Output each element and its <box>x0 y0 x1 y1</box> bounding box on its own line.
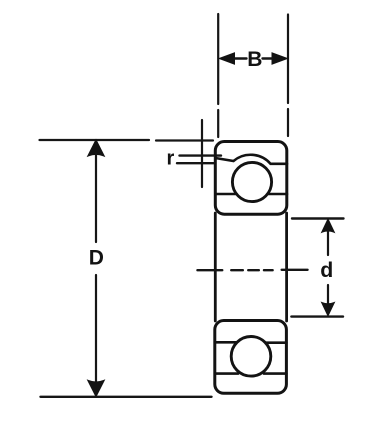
B dimension right arrow tail line <box>263 57 273 59</box>
r upper leader line <box>180 154 222 156</box>
bore left edge <box>214 213 217 321</box>
bearing outer ring top section outline <box>215 142 286 215</box>
ball (top section) <box>232 162 271 201</box>
B dimension left arrow tail line <box>234 57 247 59</box>
svg-text:d: d <box>320 258 333 282</box>
D dimension up arrow <box>88 140 103 155</box>
bottom race line left (bottom section) <box>215 372 238 375</box>
d bottom extension line <box>291 315 343 317</box>
bearing outer ring bottom section outline <box>215 321 287 394</box>
svg-text:D: D <box>89 247 104 270</box>
inner ring top edge left (top section) <box>215 193 236 196</box>
D dimension bottom extension line <box>41 396 212 398</box>
top race line left (bottom section) <box>215 341 236 344</box>
svg-text:r: r <box>167 148 175 170</box>
bore right edge <box>285 213 288 321</box>
ball (bottom section) <box>231 337 271 377</box>
svg-text:B: B <box>247 48 262 71</box>
outer ring race groove (top section) <box>215 155 287 164</box>
B dimension left arrow <box>219 53 234 64</box>
D dimension top extension line <box>40 139 214 142</box>
d top extension line <box>292 217 344 219</box>
d dimension lower shaft <box>327 285 329 304</box>
top race line right (bottom section) <box>266 341 286 344</box>
inner ring top edge right (top section) <box>268 193 287 196</box>
B dimension right arrow <box>272 53 287 64</box>
d dimension up arrow <box>322 219 334 232</box>
bottom race line right (bottom section) <box>264 372 286 375</box>
B dimension left extension line <box>217 14 219 137</box>
D dimension down arrow <box>88 381 103 396</box>
r vertical tick <box>201 120 203 187</box>
D dimension lower shaft <box>95 275 97 383</box>
centerline dashed axis <box>197 269 307 272</box>
D dimension upper shaft <box>95 153 97 242</box>
d dimension down arrow <box>322 303 334 316</box>
B dimension right extension line <box>287 15 289 137</box>
d dimension upper shaft <box>327 231 329 255</box>
r lower leader line <box>177 162 214 164</box>
